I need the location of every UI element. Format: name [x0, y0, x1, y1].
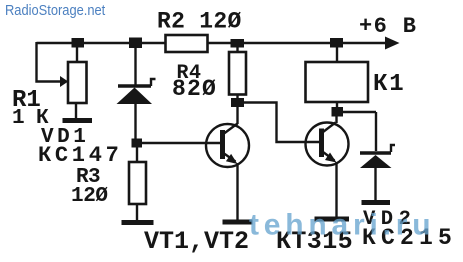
svg-text:+6 В: +6 В	[359, 14, 417, 39]
svg-text:VT1,VT2: VT1,VT2	[144, 227, 249, 256]
svg-text:RadioStorage.net: RadioStorage.net	[5, 1, 105, 18]
svg-text:12Ø: 12Ø	[71, 185, 108, 208]
svg-text:К1: К1	[373, 71, 405, 98]
svg-text:tehnari.ru: tehnari.ru	[249, 209, 435, 242]
svg-text:R2 12Ø: R2 12Ø	[157, 9, 242, 35]
svg-text:82Ø: 82Ø	[172, 76, 217, 102]
svg-text:КС147: КС147	[38, 143, 123, 168]
